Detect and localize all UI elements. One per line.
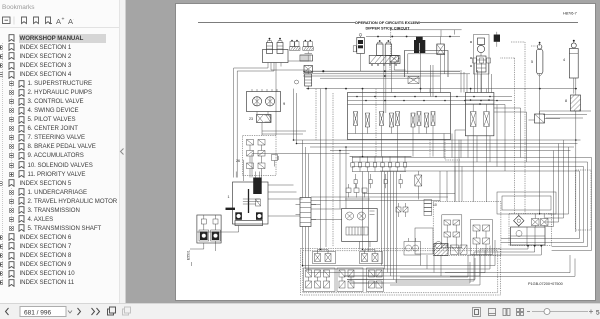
accumulator A1 — [536, 42, 543, 215]
svg-text:10: 10 — [433, 203, 437, 207]
center joint CJ — [296, 198, 317, 227]
svg-text:5: 5 — [596, 310, 600, 317]
gauge circle — [435, 242, 448, 249]
svg-text:1: 1 — [228, 195, 230, 199]
oil cooler fan motor M1 — [290, 40, 301, 51]
double pressure line — [384, 56, 386, 113]
pilot manifold comb — [350, 157, 412, 172]
wire: right margin bundle — [494, 108, 569, 227]
pressure switch — [529, 58, 566, 123]
pilot valve cluster PC1 upper — [313, 250, 336, 264]
svg-text:P1GB-07200+07500: P1GB-07200+07500 — [528, 282, 563, 286]
solenoid valve group 28 (dashed box) — [236, 136, 276, 178]
pilot gear pump unit 2 — [197, 215, 221, 243]
wire: long horizontal bus band — [294, 140, 581, 154]
steering pilot cluster — [345, 184, 370, 199]
supply bus band — [303, 70, 470, 78]
svg-text:A: A — [68, 17, 73, 25]
sideways drawing label — [187, 250, 192, 266]
svg-text:681 / 996: 681 / 996 — [24, 310, 51, 317]
svg-text:9: 9 — [283, 101, 286, 106]
pilot valve cluster PC1 lower — [304, 268, 336, 292]
wire: swing to joint horizontals — [262, 131, 306, 134]
swing motor unit 9 — [247, 89, 287, 112]
check valve on return line — [295, 80, 299, 84]
svg-text:23: 23 — [249, 117, 253, 121]
filter 15 (hatched) — [565, 78, 581, 232]
valve under bracket — [408, 77, 419, 84]
wire: mid dashed pilot lines — [316, 42, 536, 247]
frame: top rule left segment — [198, 22, 355, 24]
wire: left vertical drops — [294, 89, 369, 273]
svg-text:4: 4 — [563, 58, 565, 62]
dashed tall rect right — [576, 170, 592, 230]
wire: pilot drop bundle — [382, 172, 397, 284]
oil cooler fan motor M2 — [303, 40, 314, 51]
solenoid block container (dashed) — [433, 202, 501, 256]
swivel joint column — [470, 35, 489, 93]
junction dots lower — [293, 139, 577, 266]
dashed pilot container — [301, 249, 501, 296]
svg-text:+: + — [62, 17, 65, 23]
secondary top wire — [390, 30, 462, 56]
wire: mid horizontals — [311, 194, 455, 201]
twin check valves — [396, 203, 408, 217]
svg-text:OPERATION OF CIRCUITS EX135W: OPERATION OF CIRCUITS EX135W — [355, 20, 421, 25]
wire: container feeds — [440, 167, 462, 202]
drawing code label — [528, 282, 563, 286]
wire: pump suction lines — [234, 61, 309, 178]
brake valve 23 — [249, 112, 271, 136]
main control valve bank — [348, 93, 513, 140]
dashed pilot drop right — [500, 58, 515, 214]
pilot valve cluster PC3 lower — [367, 268, 384, 292]
main pressure bus — [306, 86, 577, 90]
return filter box — [390, 56, 398, 71]
svg-text:A: A — [56, 17, 61, 25]
svg-text:-: - — [74, 17, 75, 23]
wire: comb bus extension nested wrap — [352, 158, 592, 251]
foot pedal valve — [404, 238, 421, 255]
main pump unit 1 — [226, 172, 269, 226]
svg-text:8: 8 — [565, 99, 567, 103]
pilot relief row under comb — [354, 174, 402, 188]
check valve group (dashed) — [509, 214, 552, 246]
svg-text:H87/6-7: H87/6-7 — [563, 11, 577, 16]
steering valve 14 — [342, 209, 378, 242]
relief valve RV1 — [304, 66, 313, 87]
pilot valve cluster PC2 upper — [360, 250, 383, 264]
svg-text:E5501: E5501 — [187, 250, 191, 260]
relief valve RX — [415, 171, 422, 200]
reservoir rect — [415, 228, 433, 254]
brake valve hatched — [434, 244, 467, 256]
title text — [355, 20, 421, 31]
oil cooler core — [300, 55, 313, 61]
solenoid valves SV — [414, 37, 444, 55]
wire: valve bank feeds — [236, 53, 486, 202]
page number label H87/6-7 — [563, 11, 577, 16]
hydraulic tank T with return filters — [263, 38, 289, 63]
restrictor ladder 10 — [424, 200, 437, 216]
pilot filter valve assembly — [353, 34, 364, 72]
pipe bracket — [405, 51, 449, 78]
frame: top rule right segment — [420, 22, 578, 24]
pressure filter dark box — [494, 32, 500, 47]
hydraulic cylinder C1 — [569, 40, 578, 94]
svg-text:5: 5 — [531, 60, 533, 64]
top bus wire — [366, 36, 460, 43]
wire: bottom nested routing — [303, 240, 576, 285]
wire: bank to band verticals — [431, 65, 592, 171]
secondary valve block — [465, 93, 494, 136]
svg-text:26: 26 — [236, 159, 240, 163]
pilot valve cluster PC2 lower — [337, 268, 363, 292]
wire: pump to system lines — [190, 185, 370, 251]
orifice valve with spring — [272, 155, 280, 167]
port cluster under swivel column — [461, 58, 492, 93]
routing frame rects right — [497, 192, 556, 214]
pump mount base with accumulators — [369, 40, 400, 66]
wire: tank to cooler drop — [271, 52, 312, 75]
